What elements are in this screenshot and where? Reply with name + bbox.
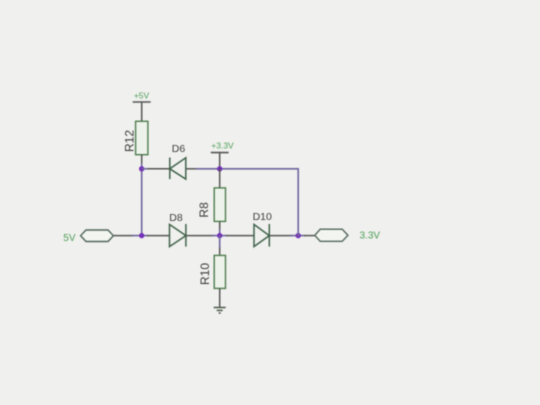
svg-text:R8: R8: [197, 202, 211, 218]
wire node E to 3.3V label: [304, 235, 315, 237]
svg-text:+5V: +5V: [134, 91, 150, 101]
ground: [214, 308, 226, 314]
diode D8: [147, 212, 213, 247]
wire node E up and left to D6 net: [297, 168, 299, 236]
svg-text:D8: D8: [169, 212, 183, 224]
resistor R8: [197, 188, 226, 230]
wire node C to R8: [219, 169, 221, 188]
resistor R12: [123, 121, 148, 163]
power symbol +5V: [133, 91, 151, 122]
wire R8 to node D: [219, 229, 221, 236]
wire node D to R10: [219, 236, 221, 248]
wire D6 to corner: [196, 168, 298, 170]
svg-text:D6: D6: [172, 143, 186, 155]
node E junction: [296, 233, 301, 238]
node B junction: [139, 233, 144, 238]
wire 5V label to node B: [113, 235, 133, 237]
diode D6: [148, 143, 198, 179]
wire node A down to node B: [141, 169, 143, 236]
svg-text:3.3V: 3.3V: [360, 230, 381, 241]
node D junction: [217, 233, 222, 238]
wire at node D: [212, 235, 227, 237]
node A junction: [139, 166, 144, 171]
svg-text:R10: R10: [198, 263, 212, 285]
svg-text:5V: 5V: [63, 233, 76, 244]
svg-text:D10: D10: [253, 211, 272, 223]
node C junction: [217, 166, 222, 171]
wire node A to D6: [142, 168, 149, 170]
diode D10: [226, 211, 292, 247]
svg-text:+3.3V: +3.3V: [211, 141, 234, 151]
wire R12 to node A: [141, 163, 143, 169]
hierarchical label 5V: [63, 230, 113, 244]
power symbol +3.3V: [211, 141, 234, 169]
hierarchical label 3.3V: [315, 229, 381, 241]
svg-text:R12: R12: [123, 130, 137, 152]
wire D10 to node E: [291, 235, 306, 237]
resistor R10: [198, 248, 226, 308]
